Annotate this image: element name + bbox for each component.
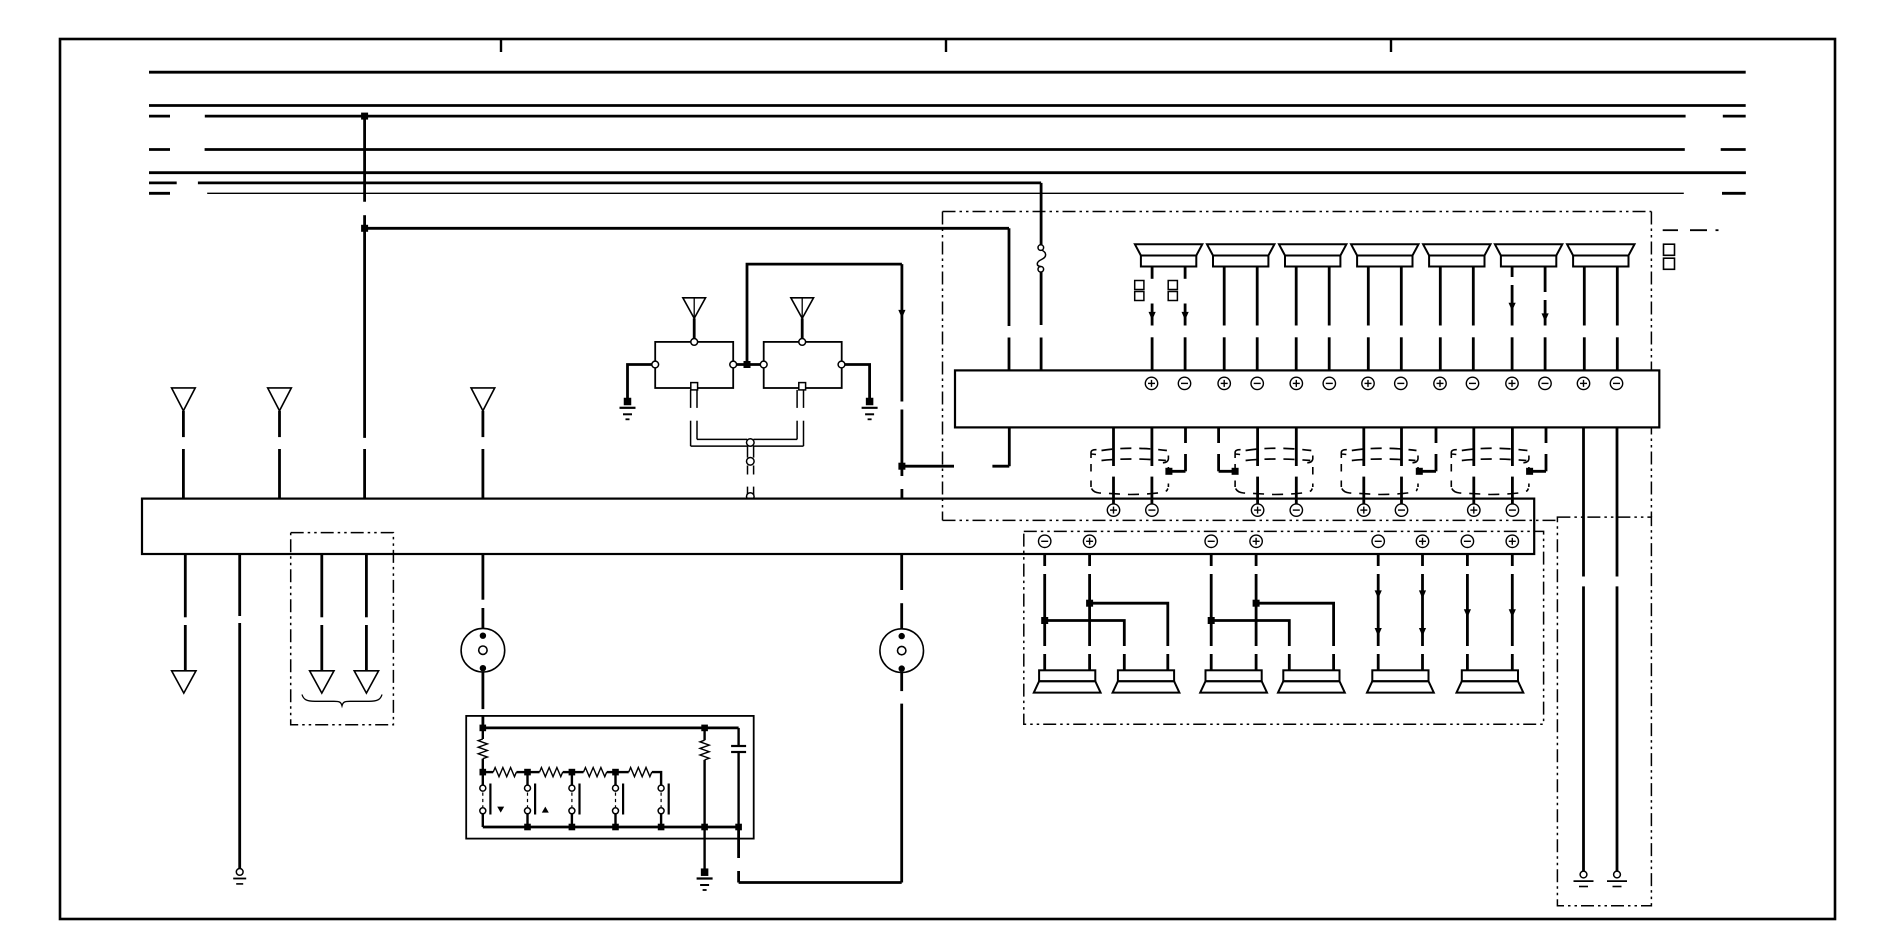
wire shield elbow 2 [1219,427,1236,471]
wire barrel B3 legs [1364,427,1402,504]
coax connector 3 [747,493,755,501]
arrow S1 right [1182,312,1189,320]
connector C1 [461,628,505,672]
amplifier connector bar [955,370,1659,427]
wire rear elbow 2 [1090,603,1168,670]
terminal U2 right [838,361,845,368]
bus wire 6 [149,181,1041,184]
pin amp 5 plus [1290,377,1302,389]
wire rear elbow 4 [1256,603,1334,670]
resistor R5 [616,768,662,786]
wire amp feed riser [1008,427,1011,466]
connector C2 [880,629,924,673]
junction rear 1 [1041,617,1048,624]
junction bottom bus 5 [701,824,708,831]
switch SW2 [525,772,536,827]
wire R6 ground [703,827,705,870]
wire bus6 drop [1040,183,1043,371]
switch SW5 [658,784,669,828]
connector barrel B2 [1246,448,1312,450]
arrow out 1 [172,671,196,693]
junction ladder 3 [612,769,619,776]
speaker S6 [1495,244,1562,255]
pin amp 9 plus [1434,377,1446,389]
junction ladder 1 [524,769,531,776]
terminal U1 bottom [691,383,698,390]
amplifier dash-dot box [943,212,1652,521]
wire rear 7 [1466,554,1469,670]
border tick 2 [945,39,947,52]
wire antenna A4 stem [693,318,696,339]
wire capacitor down [737,827,740,883]
speaker RS6 [1462,670,1518,681]
wire rear elbow 3 [1211,621,1289,671]
junction rear 4 [1253,600,1260,607]
pin head upper 1 plus [1107,504,1119,516]
wire shield elbow 4 [1530,427,1546,471]
ground G3 [236,869,243,876]
pin amp 1 plus [1145,377,1157,389]
head unit connector bar [142,499,1534,554]
antenna amplifier U1 [655,342,733,388]
bus wire 3 [149,115,1746,118]
pin amp 6 minus [1323,377,1335,389]
wire connector C2 upper [900,554,903,629]
remote switch box [466,716,754,839]
connector barrel B3 [1352,448,1417,450]
resistor R4 [572,768,616,777]
speaker S1 [1135,244,1202,255]
wire amp feed horizontal [902,465,1009,468]
wire S6 legs [1512,267,1545,371]
rear speaker dash-dot box [1024,531,1544,724]
wire shield elbow 1 [1169,427,1186,471]
wire S2 legs [1224,267,1257,371]
wire U1 ground lead [628,365,652,399]
connector barrel B1 [1102,448,1167,450]
pin amp 3 plus [1218,377,1230,389]
junction shield 3 [1416,468,1423,475]
bus wire 2 [149,104,1746,107]
pin head lower 8 plus [1506,535,1518,547]
pin amp 14 minus [1610,377,1622,389]
wire S4 legs [1368,267,1401,371]
wire amp ground 2 [1616,427,1619,871]
wire S7 legs [1584,267,1617,371]
bus wire 5 [149,171,1746,174]
brace [302,695,382,706]
antenna A1 [172,388,196,411]
junction bottom bus 4 [658,824,665,831]
coax U1 down [691,390,748,446]
border tick 3 [1390,39,1392,52]
wire rear 5 [1377,554,1380,670]
bus wire 4 [149,148,1746,151]
bus wire 7 [149,192,1746,195]
pin head upper 5 plus [1358,504,1370,516]
speaker RS3 [1206,670,1262,681]
wire rear 8 [1511,554,1514,670]
pin head lower 5 minus [1372,535,1384,547]
pin amp 8 minus [1395,377,1407,389]
junction shield 2 [1232,468,1239,475]
pin amp 11 plus [1506,377,1518,389]
arrow rear 5b [1375,628,1382,636]
switch bottom bus [483,826,739,829]
wire rear 1 [1043,554,1046,670]
speaker RS4 [1283,670,1339,681]
pin head lower 6 plus [1416,535,1428,547]
fuse F1 [1037,245,1045,272]
connector squares S1 [1135,281,1178,301]
pin head upper 4 minus [1290,504,1302,516]
wire S1 legs [1152,267,1185,371]
junction bottom bus 6 [735,824,742,831]
pin head lower 2 plus [1083,535,1095,547]
junction ladder 2 [569,769,576,776]
antenna amplifier U2 [764,342,842,388]
wire rear 6 [1421,554,1424,670]
pin amp 2 minus [1178,377,1190,389]
pin amp 12 minus [1539,377,1551,389]
pin amp 7 plus [1362,377,1374,389]
switch SW1 [480,772,491,827]
wire output 4 [365,554,368,671]
wire S5 legs [1440,267,1473,371]
arrow rear 7 [1464,609,1471,617]
terminal U2 bottom [799,383,806,390]
speaker RS1 [1039,670,1095,681]
far right dash-dot box [1557,517,1651,906]
junction bottom bus 1 [524,824,531,831]
pin head lower 1 minus [1039,535,1051,547]
wire bottom link [739,881,902,884]
wire bus3 drop [363,116,366,499]
junction bottom bus 2 [569,824,576,831]
arrow out 4 [354,671,378,693]
border tick 1 [500,39,502,52]
switch SW3 [569,772,580,827]
junction ladder 0 [480,769,487,776]
coax trunk [748,446,754,496]
junction bottom bus 3 [612,824,619,831]
wire barrel B4 legs [1474,427,1513,504]
junction branch [361,225,368,232]
junction amp feed [898,463,905,470]
arrow rear 6b [1419,628,1426,636]
pin head upper 7 plus [1468,504,1480,516]
wire riser drop [901,264,904,466]
ground G2 [866,398,874,406]
arrow S1 left [1149,312,1156,320]
terminal U1 top [691,339,698,346]
dash-dot box lower left [291,533,394,725]
connector squares right [1664,244,1675,269]
antenna A2 [268,388,292,411]
wire shield elbow 3 [1419,427,1436,471]
wire branch horizontal [365,227,1009,230]
pin head lower 4 plus [1250,535,1262,547]
dashed stub right [1663,229,1719,231]
ground G4 [701,868,709,876]
wire output 1 [184,554,187,671]
arrow rear 8 [1509,609,1516,617]
ground G5 [1580,871,1587,878]
pin amp 4 minus [1251,377,1263,389]
junction link [744,361,751,368]
pin head upper 2 minus [1146,504,1158,516]
terminal U1 left [652,361,659,368]
wire antenna A2 [278,411,281,499]
ground G1 [624,398,632,406]
junction shield 1 [1165,468,1172,475]
terminal U2 top [799,339,806,346]
wire connector C2 lower [900,672,903,883]
wire barrel B2 legs [1258,427,1297,504]
speaker S2 [1207,244,1274,255]
wire switch feed [481,554,484,628]
switch SW4 [613,772,624,827]
arrow out 3 [310,671,334,693]
junction shield 4 [1526,468,1533,475]
speaker S3 [1279,244,1346,255]
junction rear 3 [1208,617,1215,624]
wire rear 3 [1210,554,1213,670]
pin head upper 6 minus [1395,504,1407,516]
pin head lower 3 minus [1205,535,1217,547]
pin head upper 3 plus [1251,504,1263,516]
wire amp ground 1 [1582,427,1585,871]
wire U1-U2 link [737,363,761,366]
speaker S5 [1423,244,1490,255]
wire antenna A3 [481,411,484,499]
wire antenna A1 [182,411,185,499]
coax U2 down [753,390,803,446]
speaker S7 [1567,244,1634,255]
pin amp 13 plus [1577,377,1589,389]
arrow down symbol [497,807,504,813]
terminal U1 right [730,361,737,368]
wire output 3 [320,554,323,671]
arrow S6 right [1542,313,1549,321]
bus wire 1 [149,71,1746,74]
resistor R3 [528,768,572,777]
wire output 2 ground [238,554,241,869]
junction rear 2 [1086,600,1093,607]
capacitor C2 [731,728,746,827]
arrow up symbol [542,807,549,813]
wire barrel B1 legs [1114,427,1152,504]
junction top bus 2 [701,725,708,732]
arrow S6 left [1509,303,1516,311]
resistor R1 [478,728,487,772]
wire U2 ground lead [845,365,870,399]
antenna A3 [471,388,495,411]
terminal U2 left [760,361,767,368]
junction bus3 [361,113,368,120]
connector barrel B4 [1462,448,1528,450]
antenna A4 [683,298,706,319]
resistor R2 [483,768,528,777]
wire rear elbow 1 [1045,621,1125,671]
wire link riser [747,264,902,364]
wire head unit drop [901,466,904,498]
wire S3 legs [1296,267,1329,371]
pin amp 10 minus [1466,377,1478,389]
arrow rear 5a [1375,590,1382,598]
coax connector 1 [747,439,755,447]
wire rear 4 [1255,554,1258,670]
speaker RS5 [1372,670,1428,681]
coax connector 2 [747,458,755,466]
wire rear 2 [1088,554,1091,670]
pin head upper 8 minus [1506,504,1518,516]
ground G6 [1614,871,1621,878]
junction top bus 1 [480,725,487,732]
pin head lower 7 minus [1461,535,1473,547]
wire branch drop to amplifier [1008,228,1011,370]
wire switch feed 2 [481,672,484,728]
speaker S4 [1351,244,1418,255]
arrow marker riser [898,310,905,318]
arrow rear 6a [1419,590,1426,598]
switch top bus [483,727,739,730]
resistor R6 [700,728,709,827]
antenna A5 [791,298,814,319]
speaker RS2 [1118,670,1174,681]
wire antenna A5 stem [801,318,804,339]
